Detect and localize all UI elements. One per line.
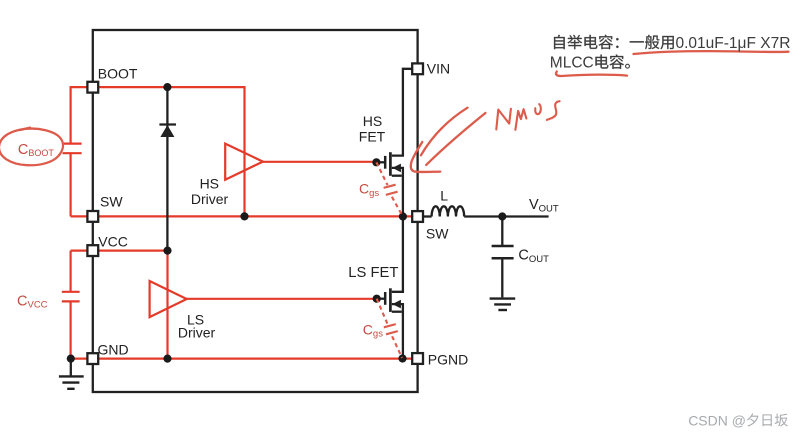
svg-text:SW: SW: [426, 225, 449, 241]
svg-text:HS: HS: [200, 175, 219, 191]
svg-text:BOOT: BOOT: [98, 66, 138, 82]
svg-text:MLCC: MLCC: [550, 55, 594, 72]
svg-text:VIN: VIN: [427, 61, 450, 77]
svg-text:SW: SW: [100, 193, 123, 209]
svg-text:VCC: VCC: [98, 233, 128, 249]
svg-text:PGND: PGND: [428, 351, 468, 367]
svg-text:LS FET: LS FET: [348, 265, 398, 281]
svg-text:Driver: Driver: [178, 325, 216, 341]
svg-text:0.01uF-1μF X7R: 0.01uF-1μF X7R: [676, 35, 791, 52]
svg-text:FET: FET: [359, 128, 386, 144]
svg-text:Driver: Driver: [191, 191, 229, 207]
svg-text:L: L: [440, 187, 448, 203]
svg-text:GND: GND: [98, 341, 129, 357]
svg-text:CSDN @: CSDN @: [688, 412, 746, 428]
svg-text:HS: HS: [363, 113, 382, 129]
